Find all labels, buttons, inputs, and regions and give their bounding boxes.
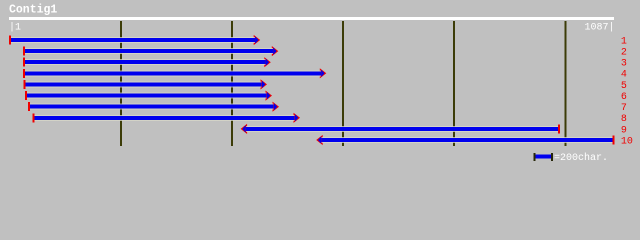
svg-text:|1: |1 [9,21,21,33]
read 8 forward [33,113,301,123]
svg-text:8: 8 [621,114,627,125]
read 3 forward [23,57,271,67]
svg-text:Contig1: Contig1 [9,4,57,17]
read 1 forward [9,35,260,45]
read 9 reverse [241,124,560,134]
ruler label |1 [9,21,21,33]
read 10 reverse [316,135,614,145]
grid line 1000 [564,21,566,146]
read number 2 [621,48,627,59]
ruler bar [9,17,614,20]
read 6 forward [25,91,272,101]
read 2 forward [23,46,278,56]
svg-text:3: 3 [621,59,627,70]
legend label =200char. [554,152,608,164]
read number 6 [621,92,627,103]
svg-text:5: 5 [621,81,627,92]
legend scale bar [534,153,554,161]
svg-text:1: 1 [621,36,627,47]
svg-text:9: 9 [621,125,627,136]
svg-text:2: 2 [621,48,627,59]
read 7 forward [28,102,279,112]
svg-text:10: 10 [621,136,633,147]
read 4 forward [23,68,326,78]
svg-text:1087|: 1087| [585,21,615,33]
svg-text:4: 4 [621,70,627,81]
read 5 forward [23,79,267,89]
read number 8 [621,114,627,125]
svg-text:6: 6 [621,92,627,103]
read number 10 [621,136,633,147]
grid line 200 [120,21,122,146]
read number 1 [621,36,627,47]
grid line 400 [231,21,233,146]
read number 3 [621,59,627,70]
grid line 800 [453,21,455,146]
read number 4 [621,70,627,81]
svg-text:=200char.: =200char. [554,152,608,164]
read number 7 [621,103,627,114]
title Contig1 [9,4,57,17]
ruler label 1087| [585,21,615,33]
svg-text:7: 7 [621,103,627,114]
read number 9 [621,125,627,136]
grid line 600 [342,21,344,146]
read number 5 [621,81,627,92]
